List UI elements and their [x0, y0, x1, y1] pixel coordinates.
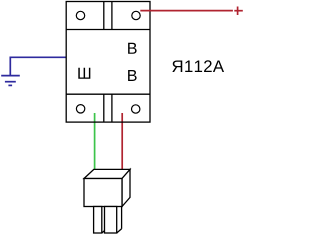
ground symbol [1, 76, 20, 86]
connector J1 right face [122, 169, 130, 206]
wire: +12V red from top-right terminal [140, 10, 233, 12]
pin label B (bottom) [128, 70, 137, 81]
connector J1 top face [84, 169, 130, 178]
pin label B (top) [128, 43, 137, 54]
bottom row cell divider right [111, 94, 113, 122]
part label Я112А [172, 60, 224, 72]
terminal circle bottom-right [132, 105, 140, 113]
divider top row [66, 29, 150, 31]
top row cell divider left [103, 2, 105, 30]
connector pin 2 [105, 207, 122, 234]
regulator body outline U1 [66, 2, 150, 123]
wire: red to connector [121, 113, 123, 170]
divider bottom row [66, 93, 150, 95]
wire: ground blue from body left [10, 57, 66, 75]
terminal circle bottom-left [76, 105, 84, 113]
connector pin 1 [94, 207, 107, 234]
connector J1 front face [84, 179, 122, 207]
pin label Sh [78, 68, 90, 79]
node + (plus symbol) [234, 7, 243, 16]
wire: green to connector [94, 113, 96, 170]
terminal circle top-right [132, 11, 140, 19]
terminal circle top-left [76, 11, 84, 19]
bottom row cell divider left [103, 94, 105, 122]
top row cell divider right [111, 2, 113, 30]
